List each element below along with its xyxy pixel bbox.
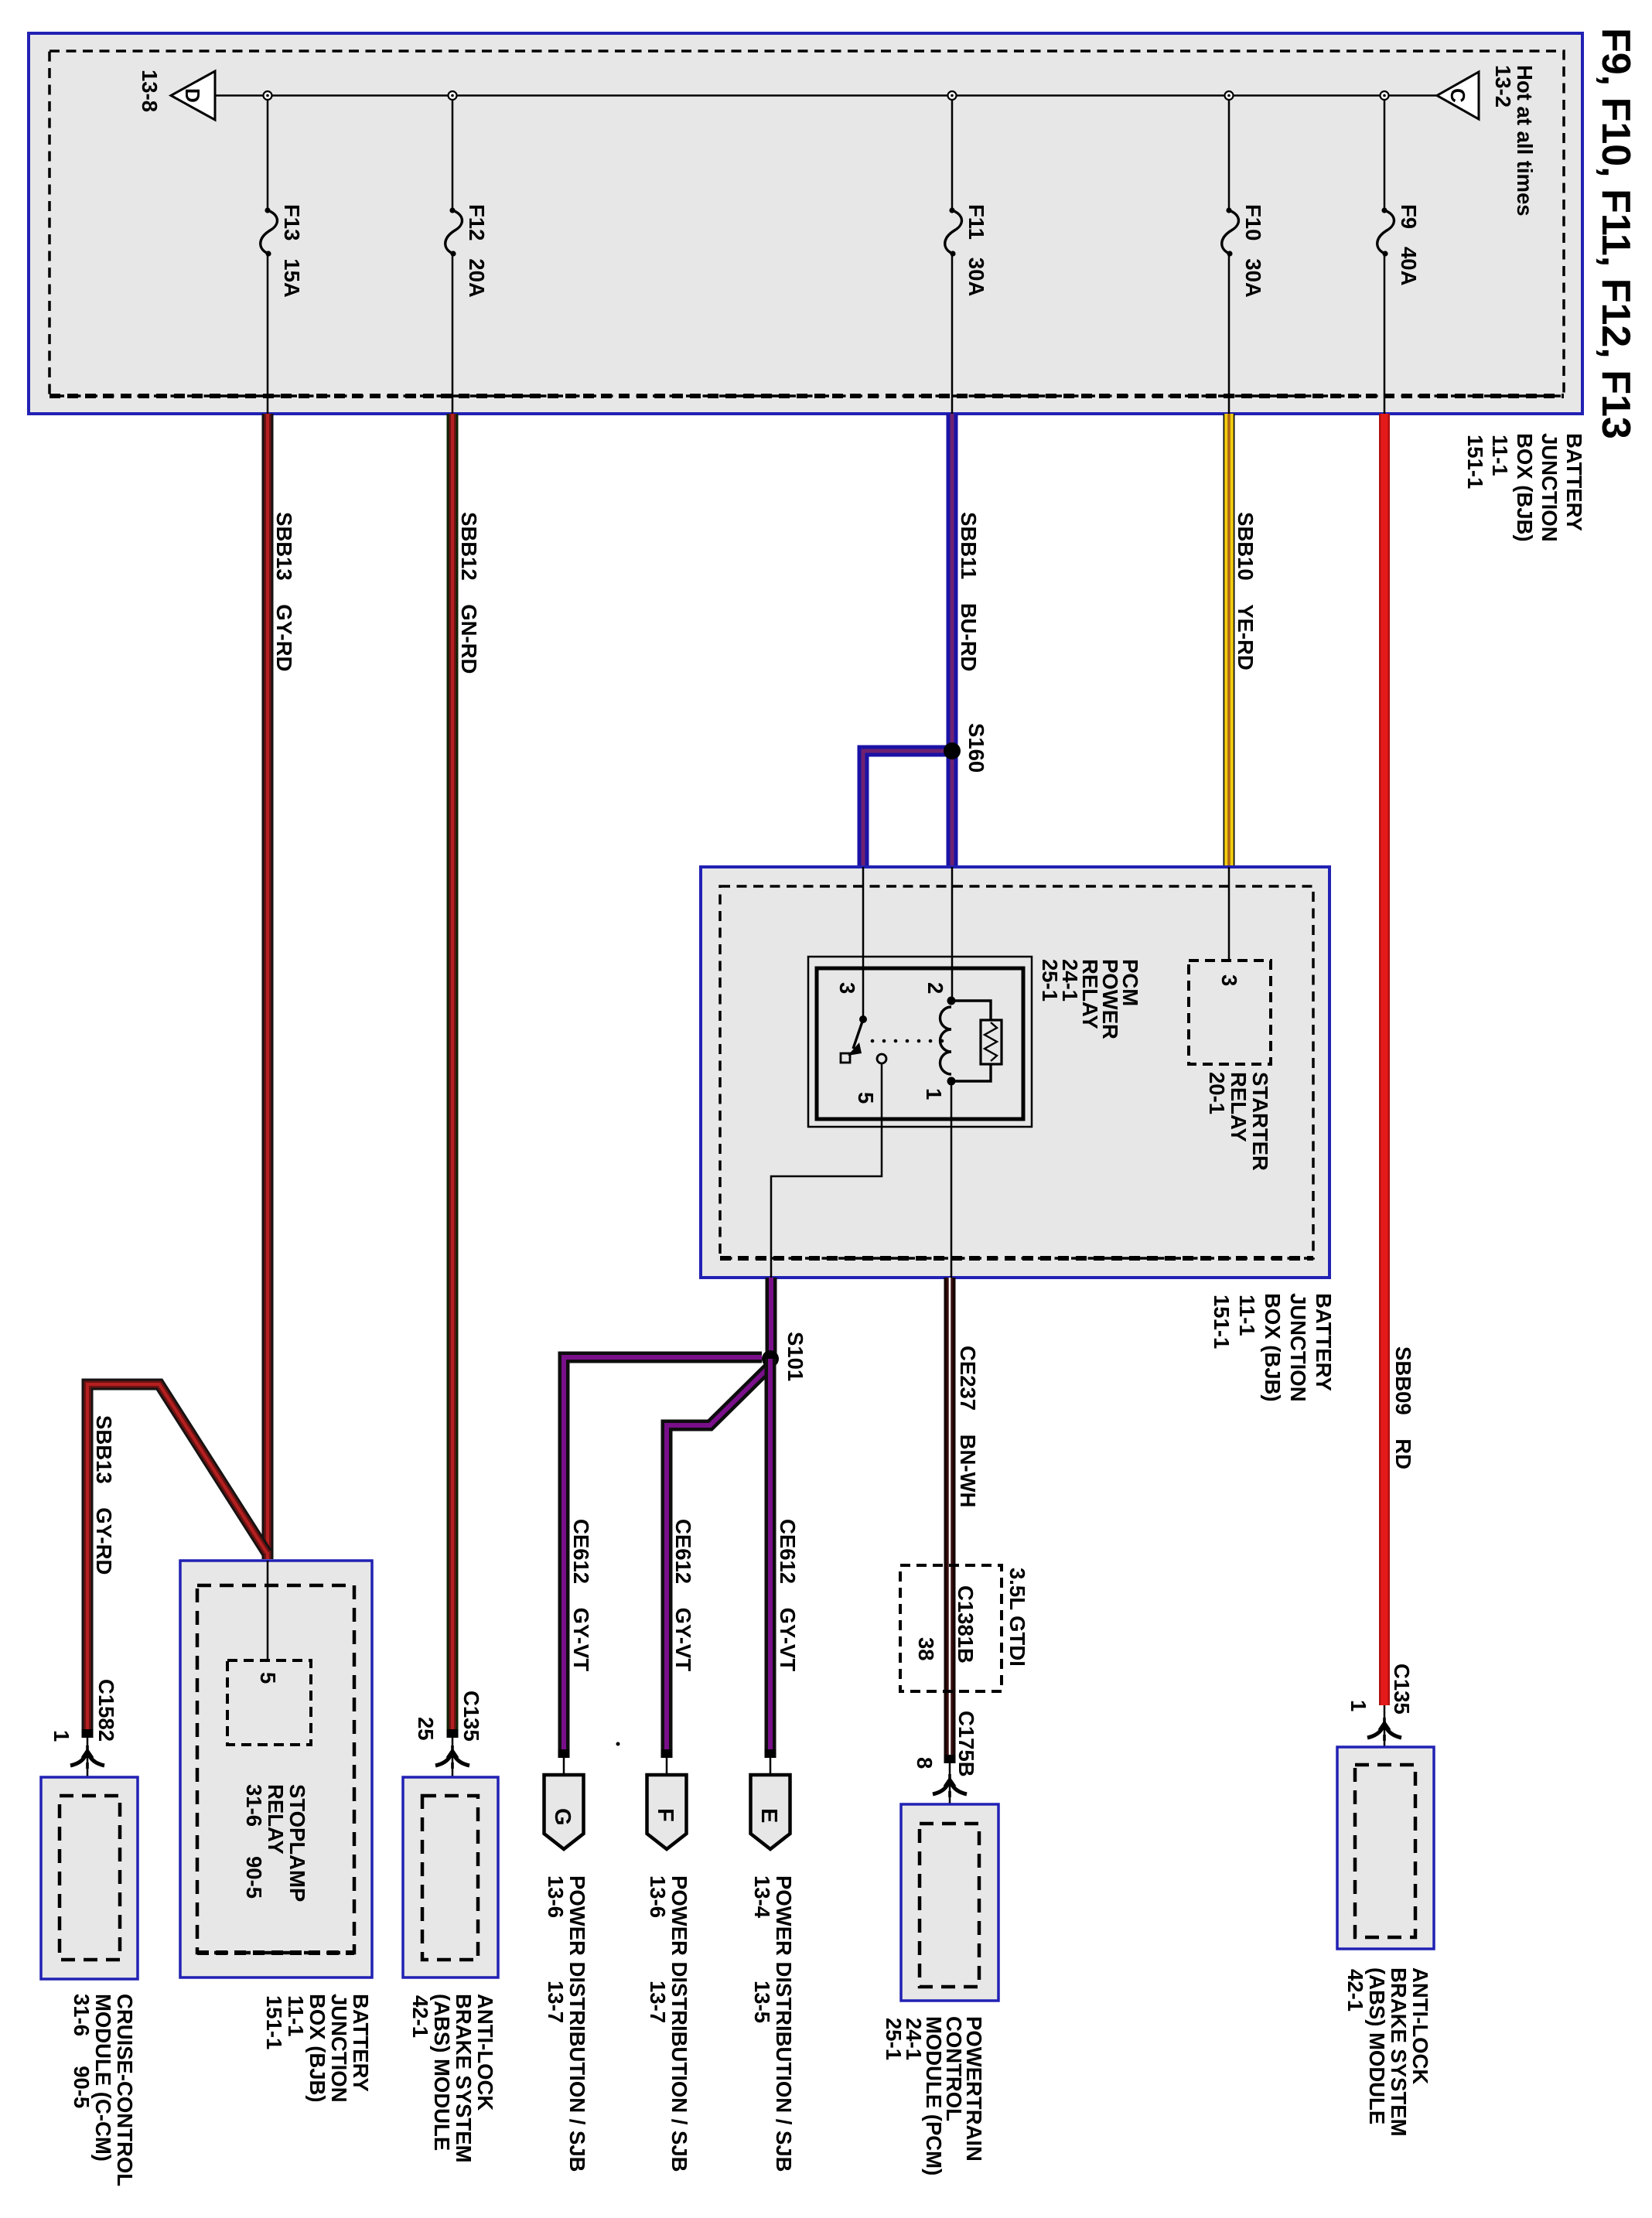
svg-text:90-5: 90-5 — [242, 1856, 266, 1899]
relay switch (pins 3-5) — [859, 1015, 867, 1023]
svg-text:31-6 90-5: 31-6 90-5 — [70, 1994, 94, 2108]
svg-text:C: C — [1446, 88, 1469, 103]
svg-text:SBB12 GN-RD: SBB12 GN-RD — [457, 512, 481, 674]
svg-text:42-1: 42-1 — [408, 1995, 432, 2038]
off-page reference triangle D — [171, 71, 215, 120]
svg-text:BOX (BJB): BOX (BJB) — [1513, 433, 1537, 542]
fuse F13 — [261, 91, 278, 415]
svg-text:13-6: 13-6 — [544, 1875, 568, 1918]
wire SBB09 RD — [1379, 414, 1390, 1705]
svg-text:25-1: 25-1 — [882, 2018, 906, 2060]
svg-text:(ABS) MODULE: (ABS) MODULE — [1365, 1967, 1389, 2124]
fuse F10 — [1222, 91, 1239, 415]
splice S160 — [944, 742, 961, 759]
lead into ABS module (pin 25) — [452, 1737, 454, 1798]
svg-text:F9 40A: F9 40A — [1397, 204, 1421, 286]
svg-text:RELAY: RELAY — [1227, 1072, 1251, 1142]
svg-text:13-7: 13-7 — [646, 1981, 670, 2023]
svg-text:BOX (BJB): BOX (BJB) — [1261, 1293, 1285, 1402]
svg-text:F: F — [653, 1808, 678, 1822]
connector C1381B (dashed, 3.5L GTDI) pin 38 — [900, 1565, 1002, 1691]
wire CE612 GY-VT branch G — [564, 1357, 762, 1758]
svg-text:11-1: 11-1 — [1235, 1295, 1259, 1336]
svg-text:SBB13 GY-RD: SBB13 GY-RD — [272, 512, 296, 671]
svg-text:CE612 GY-VT: CE612 GY-VT — [569, 1519, 593, 1671]
svg-text:RELAY: RELAY — [264, 1784, 288, 1855]
svg-text:C1381B: C1381B — [954, 1585, 978, 1663]
svg-text:JUNCTION: JUNCTION — [1286, 1293, 1310, 1402]
svg-text:C175B: C175B — [954, 1711, 978, 1777]
wire SBB13 GY-RD branch to C-CM — [87, 1384, 267, 1737]
hot-at-all-times bus wire — [215, 94, 1437, 97]
svg-text:SBB09 RD: SBB09 RD — [1391, 1346, 1415, 1469]
off-page reference triangle C — [1437, 72, 1479, 119]
connector terminal E (pentagon) — [751, 1775, 790, 1849]
svg-text:13-4: 13-4 — [750, 1875, 774, 1919]
relay pin 5 terminal — [877, 1054, 886, 1063]
svg-text:20-1: 20-1 — [1205, 1072, 1229, 1114]
svg-text:(ABS) MODULE: (ABS) MODULE — [430, 1994, 454, 2151]
connector terminal G (pentagon) — [544, 1775, 584, 1849]
relay suppression resistor — [951, 1001, 991, 1081]
lead into C-CM — [87, 1737, 89, 1798]
wire (inside box) from starter relay feed — [1228, 867, 1230, 961]
wire CE612 GY-VT from relay pin 5 — [766, 1278, 777, 1359]
svg-text:SBB10 YE-RD: SBB10 YE-RD — [1234, 512, 1258, 671]
svg-text:CE612 GY-VT: CE612 GY-VT — [776, 1519, 800, 1671]
svg-text:25-1: 25-1 — [1038, 959, 1062, 1002]
splice S101 — [762, 1350, 779, 1367]
anti-lock brake system module box (left) — [403, 1777, 498, 1977]
inline connector symbol C175B — [933, 1774, 967, 1797]
svg-text:BATTERY: BATTERY — [1312, 1293, 1336, 1391]
wire SBB13 GY-RD (main run to stoplamp relay) — [262, 414, 274, 1559]
svg-text:F11 30A: F11 30A — [964, 204, 988, 296]
starter relay pin 3 (dashed) — [1189, 961, 1271, 1064]
svg-text:38: 38 — [914, 1637, 938, 1661]
svg-text:BATTERY: BATTERY — [349, 1994, 373, 2092]
svg-text:POWER DISTRIBUTION / SJB: POWER DISTRIBUTION / SJB — [772, 1875, 796, 2172]
svg-text:STARTER: STARTER — [1248, 1072, 1272, 1171]
svg-text:151-1: 151-1 — [262, 1995, 286, 2049]
anti-lock brake system module box (right) — [1337, 1747, 1434, 1949]
fuse F9 — [1377, 91, 1394, 415]
svg-text:F13 15A: F13 15A — [280, 204, 304, 298]
svg-text:5: 5 — [256, 1672, 280, 1684]
svg-text:E: E — [756, 1808, 781, 1823]
svg-text:MODULE (C-CM): MODULE (C-CM) — [91, 1994, 115, 2162]
svg-text:C135: C135 — [1390, 1663, 1414, 1715]
svg-text:13-2: 13-2 — [1491, 65, 1515, 107]
svg-text:13-6: 13-6 — [646, 1875, 670, 1918]
lead into ABS module (pin 1) — [1384, 1705, 1386, 1767]
svg-text:SBB11 BU-RD: SBB11 BU-RD — [957, 512, 981, 671]
battery junction box (BJB) relay enclosure — [701, 867, 1329, 1278]
svg-text:8: 8 — [913, 1757, 937, 1769]
svg-text:3: 3 — [1217, 974, 1241, 986]
stray mark — [616, 1742, 620, 1746]
wire SBB10 YE-RD — [1224, 414, 1235, 867]
svg-text:BRAKE SYSTEM: BRAKE SYSTEM — [1387, 1967, 1411, 2137]
svg-text:13-8: 13-8 — [138, 70, 162, 112]
connector terminal F (pentagon) — [647, 1775, 687, 1849]
fuse F12 — [445, 91, 462, 415]
svg-text:F9, F10, F11, F12, F13: F9, F10, F11, F12, F13 — [1593, 28, 1638, 439]
wire SBB11 BU-RD — [947, 414, 958, 867]
svg-text:25: 25 — [414, 1717, 438, 1741]
svg-text:5: 5 — [854, 1092, 878, 1104]
PCM power relay outline — [808, 957, 1032, 1127]
inline connector symbol C135 pin 1 — [1367, 1718, 1401, 1741]
svg-text:151-1: 151-1 — [1463, 435, 1487, 489]
inline connector symbol C1582 — [70, 1745, 104, 1769]
wire CE612 GY-VT branch E — [765, 1359, 777, 1758]
svg-text:F10 30A: F10 30A — [1241, 204, 1265, 298]
svg-text:13-5: 13-5 — [750, 1981, 774, 2023]
wire SBB12 GN-RD — [447, 414, 459, 1737]
svg-text:CE612 GY-VT: CE612 GY-VT — [671, 1519, 695, 1671]
svg-text:C1582: C1582 — [94, 1679, 118, 1742]
svg-text:3.5L GTDI: 3.5L GTDI — [1005, 1568, 1029, 1667]
svg-text:SBB13 GY-RD: SBB13 GY-RD — [92, 1415, 116, 1575]
leads to SJB terminals — [563, 1758, 565, 1775]
svg-text:S101: S101 — [783, 1332, 807, 1381]
svg-text:1: 1 — [922, 1088, 946, 1100]
battery junction box (BJB) F9-F13 enclosure — [29, 33, 1582, 414]
svg-text:31-6: 31-6 — [242, 1784, 266, 1827]
svg-text:G: G — [550, 1808, 575, 1826]
wire SBB11 BU-RD branch at S160 — [863, 751, 947, 867]
svg-text:3: 3 — [835, 982, 859, 994]
powertrain control module (PCM) box — [901, 1804, 998, 2001]
svg-text:BATTERY: BATTERY — [1562, 433, 1586, 531]
wire end caps — [82, 1729, 94, 1738]
stoplamp relay pin 5 (dashed) — [227, 1660, 311, 1745]
wire from relay pin 5 — [771, 1063, 882, 1278]
svg-text:151-1: 151-1 — [1210, 1295, 1234, 1349]
svg-text:ANTI-LOCK: ANTI-LOCK — [473, 1994, 497, 2111]
svg-text:F12 20A: F12 20A — [465, 204, 489, 298]
svg-text:JUNCTION: JUNCTION — [1538, 433, 1562, 542]
svg-text:C135: C135 — [459, 1691, 483, 1742]
lead into PCM (pin 8) — [949, 1763, 951, 1834]
svg-text:42-1: 42-1 — [1343, 1969, 1367, 2012]
svg-text:D: D — [181, 88, 204, 103]
wire CE612 GY-VT branch F — [667, 1366, 770, 1758]
relay coil (pins 2-1) — [947, 997, 956, 1005]
svg-text:CE237 BN-WH: CE237 BN-WH — [956, 1346, 980, 1507]
svg-text:STOPLAMP: STOPLAMP — [285, 1784, 309, 1902]
svg-text:1: 1 — [49, 1730, 73, 1742]
svg-text:POWER DISTRIBUTION / SJB: POWER DISTRIBUTION / SJB — [565, 1875, 589, 2172]
relay actuation dotted link — [871, 1039, 944, 1043]
battery junction box (stoplamp relay) box — [180, 1561, 372, 1977]
svg-text:13-7: 13-7 — [544, 1981, 568, 2023]
svg-text:S160: S160 — [964, 723, 988, 773]
svg-text:POWER DISTRIBUTION / SJB: POWER DISTRIBUTION / SJB — [667, 1875, 691, 2172]
cruise-control module (C-CM) box — [41, 1777, 138, 1979]
svg-text:Hot at all times: Hot at all times — [1513, 65, 1537, 217]
svg-text:BOX (BJB): BOX (BJB) — [305, 1994, 329, 2103]
fuse F11 — [945, 91, 962, 415]
wire (inside box) to relay pin 3 — [862, 867, 865, 1019]
wire from relay pin 1 — [951, 1081, 953, 1278]
svg-text:CRUISE-CONTROL: CRUISE-CONTROL — [113, 1994, 137, 2186]
svg-text:1: 1 — [1347, 1700, 1370, 1711]
svg-text:JUNCTION: JUNCTION — [327, 1994, 351, 2103]
wire (inside box) to relay pin 2 — [951, 867, 954, 1001]
wire CE237 BN-WH to PCM — [944, 1278, 956, 1763]
svg-text:BRAKE SYSTEM: BRAKE SYSTEM — [452, 1994, 476, 2163]
svg-text:11-1: 11-1 — [1488, 435, 1512, 476]
inline connector symbol C135 pin 25 — [435, 1745, 469, 1769]
svg-text:ANTI-LOCK: ANTI-LOCK — [1408, 1967, 1432, 2084]
svg-text:11-1: 11-1 — [284, 1995, 308, 2037]
svg-text:2: 2 — [923, 982, 947, 994]
